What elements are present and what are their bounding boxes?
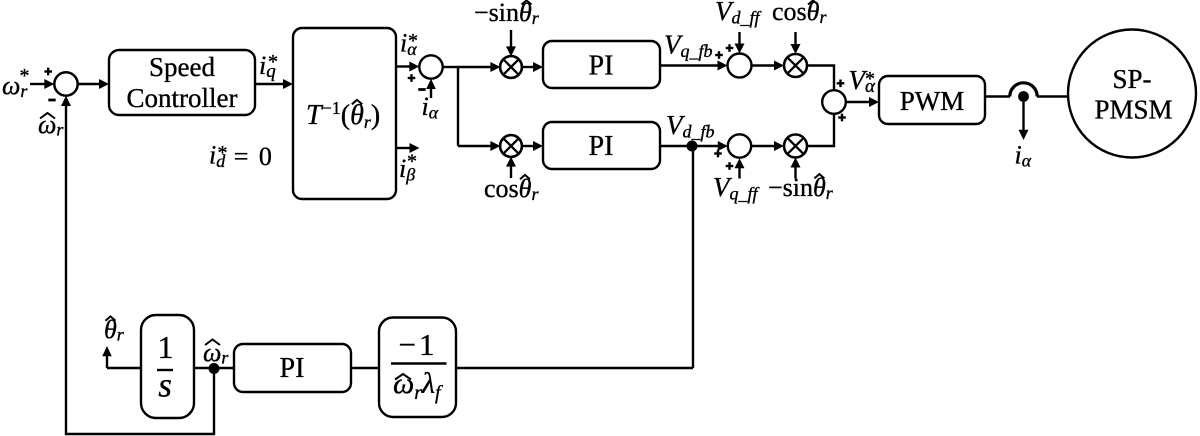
svg-text:−1: −1 [399, 327, 438, 362]
svg-text:Vq_fb: Vq_fb [664, 30, 713, 62]
svg-text:*: * [865, 68, 875, 90]
svg-text:SP-: SP- [1112, 64, 1151, 94]
svg-text:PI: PI [589, 131, 614, 162]
svg-text:*: * [20, 65, 30, 87]
svg-text:*: * [408, 30, 418, 52]
svg-text:iα: iα [1015, 141, 1032, 171]
svg-text:*: * [407, 151, 417, 173]
svg-text:ωrλf: ωrλf [393, 367, 443, 404]
svg-text:PMSM: PMSM [1094, 95, 1172, 125]
svg-text:PI: PI [280, 353, 305, 384]
svg-text:ωr: ωr [38, 110, 64, 140]
svg-text:Controller: Controller [127, 83, 238, 113]
svg-text:s: s [158, 366, 172, 405]
svg-text:*: * [218, 142, 228, 164]
svg-text:PWM: PWM [900, 86, 965, 116]
svg-text:1: 1 [158, 329, 174, 365]
svg-text:cosθr: cosθr [772, 0, 827, 27]
svg-text:Vd_ff: Vd_ff [715, 0, 763, 28]
svg-text:Vq_ff: Vq_ff [713, 172, 761, 204]
svg-text:PI: PI [589, 51, 614, 82]
svg-text:*: * [268, 51, 278, 73]
svg-text:cosθr: cosθr [484, 174, 539, 204]
svg-text:T−1(θr): T−1(θr) [306, 98, 380, 132]
svg-text:Vd_fb: Vd_fb [666, 110, 715, 142]
svg-text:Speed: Speed [149, 52, 215, 82]
